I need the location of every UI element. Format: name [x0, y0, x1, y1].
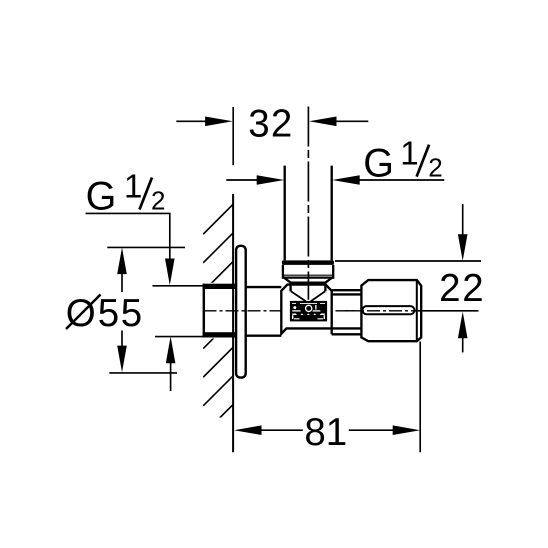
- dim D55: down arrow: [117, 346, 127, 373]
- dim 81: left arrow: [234, 425, 262, 435]
- horizontal center axis: [204, 310, 479, 312]
- svg-text:81: 81: [304, 411, 347, 454]
- svg-text:32: 32: [248, 102, 293, 145]
- funnel V lines: [291, 291, 325, 301]
- taper below nut: [284, 278, 332, 283]
- dim 22: down arrow: [462, 204, 464, 235]
- threaded inlet tail bottom thread bar: [203, 332, 237, 337]
- vertical outlet pipe: [285, 166, 332, 261]
- dim D55: top extension line: [107, 246, 185, 248]
- valve body block: [281, 285, 331, 334]
- svg-text:22: 22: [439, 267, 485, 310]
- svg-text:1: 1: [124, 167, 142, 204]
- handle axis dashes inside slot: [345, 310, 479, 312]
- dim 32: left arrow: [176, 120, 206, 122]
- dim 81: right extension line: [419, 342, 421, 453]
- dim D55: up arrow: [117, 247, 127, 274]
- handle front face edge: [416, 280, 418, 341]
- logo plate dark wave marks: [296, 313, 322, 316]
- neck below taper: [291, 283, 326, 292]
- label G1/2 left: bottom extension line: [155, 336, 203, 338]
- svg-text:1: 1: [400, 134, 418, 171]
- wall hatching: [203, 205, 233, 435]
- dim 32: right arrow: [336, 120, 368, 122]
- compression nut inner line: [284, 274, 332, 276]
- logo plate: [290, 301, 327, 322]
- dim D55: bottom extension line: [109, 372, 177, 374]
- compression nut body: [283, 265, 333, 278]
- logo plate white details: [292, 304, 325, 319]
- svg-text:2: 2: [428, 152, 442, 182]
- svg-text:G: G: [86, 174, 117, 218]
- label G1/2 left: underline and leader: [86, 213, 170, 262]
- dim 22: up arrow: [458, 312, 468, 339]
- svg-text:55: 55: [98, 292, 144, 335]
- dim 22: top extension line: [335, 260, 481, 262]
- dim 22: bottom extension line: [415, 310, 479, 312]
- vertical center axis of outlet: [307, 107, 309, 300]
- stem collar lines: [332, 290, 362, 334]
- dim 32: left extension line: [232, 107, 234, 165]
- compression nut top bar: [282, 260, 334, 265]
- threaded inlet tail left end cap: [203, 284, 205, 338]
- main pipe between flange and body: [246, 287, 282, 336]
- dim 81: right arrow: [393, 425, 421, 435]
- wall line: [232, 194, 234, 452]
- label G1/2 left: top extension line: [153, 285, 203, 287]
- flange (wall escutcheon): [236, 246, 246, 378]
- svg-text:2: 2: [151, 185, 165, 215]
- valve body right edge lower piece: [331, 328, 333, 334]
- threaded inlet tail top thread bar: [203, 284, 237, 289]
- label G1/2 left: bottom arrow: [166, 337, 176, 364]
- dim G1/2 right: arrows: [226, 179, 258, 181]
- handle knob outline: [361, 280, 421, 341]
- svg-text:G: G: [363, 141, 394, 185]
- handle slot pill: [362, 306, 414, 314]
